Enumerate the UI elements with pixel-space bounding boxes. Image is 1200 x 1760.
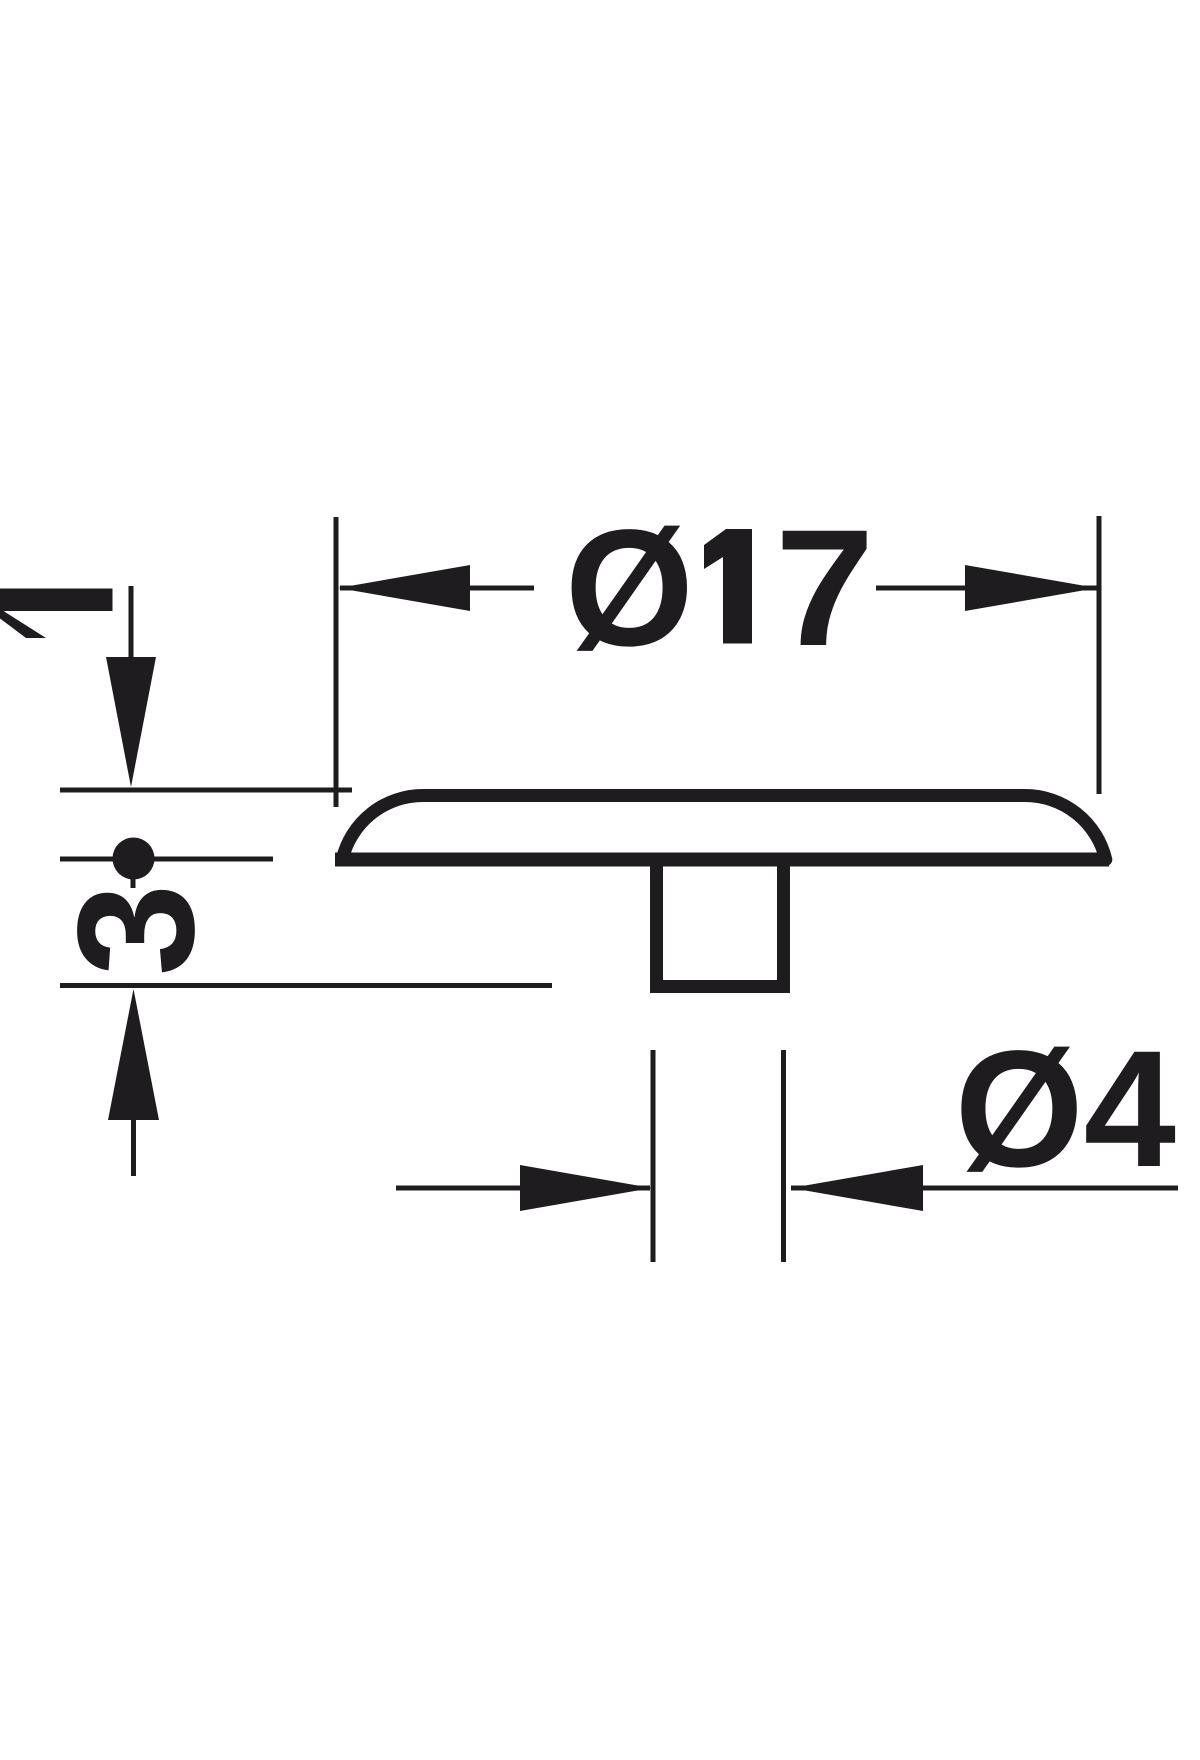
dot terminator on line B bbox=[113, 838, 155, 880]
extension line left of dia4 bbox=[651, 1050, 656, 1262]
svg-text:Ø: Ø bbox=[565, 496, 694, 681]
dimension line tail for 3 bbox=[131, 1100, 136, 1176]
dimension line dia17 right segment bbox=[876, 586, 1097, 591]
dimension text 1 rotated: flag bbox=[0, 607, 46, 638]
dimension line dia4 left segment bbox=[396, 1186, 650, 1191]
dimension line dia17 left segment bbox=[340, 586, 534, 591]
reference line B cap underside level bbox=[60, 857, 273, 862]
arrowhead dia4 pointing right bbox=[520, 1165, 652, 1211]
dimension text dia17: glyph 1 bbox=[704, 529, 752, 644]
dimension line dia4 right segment bbox=[791, 1186, 1178, 1191]
arrowhead for 1 pointing down bbox=[106, 657, 156, 787]
svg-text:Ø4: Ø4 bbox=[955, 1017, 1176, 1202]
dimension text 1 rotated: stem bar bbox=[0, 589, 113, 612]
extension line right of dia17 bbox=[1097, 516, 1102, 794]
reference line A cap top level bbox=[60, 788, 352, 793]
svg-text:7: 7 bbox=[775, 495, 874, 681]
cap bottom line over stem top bbox=[335, 853, 1109, 867]
svg-text:3: 3 bbox=[44, 884, 229, 976]
cap outline bbox=[342, 796, 1106, 860]
arrowhead dia17 left bbox=[338, 565, 470, 611]
extension line left of dia17 bbox=[334, 517, 339, 807]
arrowhead for 3 pointing up bbox=[108, 989, 159, 1120]
arrowhead dia17 right bbox=[965, 565, 1097, 611]
extension line right of dia4 bbox=[781, 1050, 786, 1262]
arrowhead dia4 pointing left bbox=[791, 1165, 923, 1211]
reference line C stem bottom level bbox=[60, 983, 552, 988]
dimension line for 1 bbox=[129, 586, 134, 700]
stub line below dot bbox=[131, 858, 136, 888]
stem bbox=[657, 864, 784, 987]
